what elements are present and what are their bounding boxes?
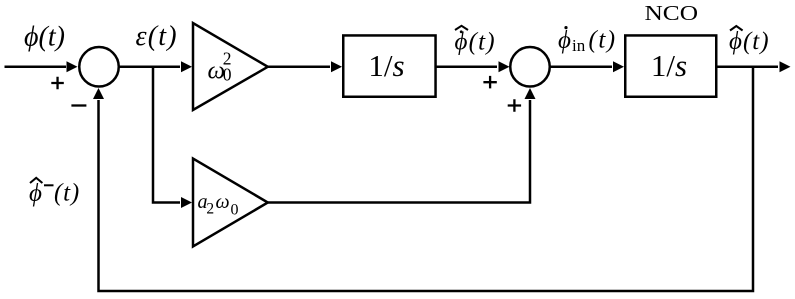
svg-text:1/s: 1/s xyxy=(368,48,404,83)
svg-text:ϕ(t): ϕ(t) xyxy=(24,21,65,52)
svg-text:2: 2 xyxy=(206,201,214,218)
svg-text:in: in xyxy=(572,36,586,55)
svg-text:(t): (t) xyxy=(589,27,617,54)
svg-text:ε(t): ε(t) xyxy=(136,21,178,52)
svg-text:0: 0 xyxy=(223,64,232,84)
svg-text:0: 0 xyxy=(231,201,239,218)
svg-text:ω: ω xyxy=(216,191,230,213)
svg-text:1/s: 1/s xyxy=(651,48,687,83)
svg-text:ϕ: ϕ xyxy=(558,27,571,54)
svg-text:ϕ(t): ϕ(t) xyxy=(729,28,770,55)
svg-text:ϕ: ϕ xyxy=(29,180,42,207)
svg-text:NCO: NCO xyxy=(645,1,699,25)
svg-text:(t): (t) xyxy=(54,180,80,207)
